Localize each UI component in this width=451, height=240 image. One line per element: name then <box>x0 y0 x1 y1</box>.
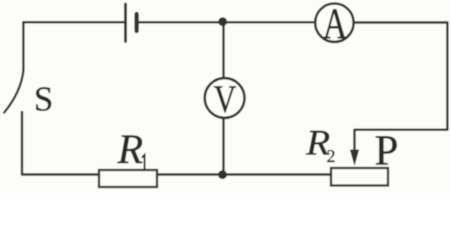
ammeter U-A circle <box>315 4 353 42</box>
wire switch lower stub <box>21 112 23 175</box>
wire bottom horizontal <box>22 173 331 175</box>
wiper label P <box>376 136 397 164</box>
battery short plate <box>134 14 138 31</box>
wire top-mid horizontal <box>137 21 315 23</box>
node top junction <box>218 17 227 26</box>
wire top-left horizontal <box>23 21 125 23</box>
voltmeter U-V circle <box>205 78 245 118</box>
resistor R1 box <box>99 170 157 187</box>
wire wiper vertical <box>353 130 355 152</box>
rheostat wiper arrowhead <box>350 150 359 167</box>
rheostat R2 box <box>331 168 388 186</box>
battery long plate <box>124 4 127 42</box>
resistor label R1 subscript 1 <box>142 155 144 170</box>
node bottom junction <box>218 170 227 179</box>
switch S blade <box>4 71 23 113</box>
wire left vertical <box>22 22 24 70</box>
wire right vertical <box>446 23 448 130</box>
resistor label R1 <box>117 136 142 164</box>
ammeter label A <box>323 9 347 38</box>
wire to wiper horizontal <box>355 128 448 130</box>
wire voltmeter branch vertical <box>222 22 224 176</box>
rheostat label R2 subscript 2 <box>327 150 334 162</box>
switch label S <box>36 87 51 111</box>
voltmeter label V <box>214 86 236 112</box>
wire top-right horizontal <box>354 21 447 23</box>
rheostat label R2 <box>306 131 330 155</box>
